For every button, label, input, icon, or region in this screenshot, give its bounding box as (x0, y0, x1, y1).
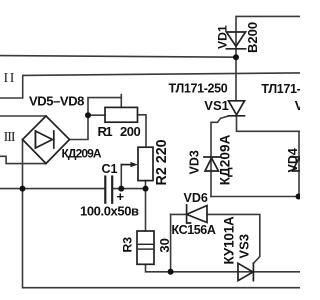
svg-text:ТЛ171-250: ТЛ171-250 (261, 82, 300, 96)
svg-text:C1: C1 (102, 162, 118, 176)
svg-text:30: 30 (157, 238, 172, 252)
svg-text:В200: В200 (245, 22, 260, 53)
svg-text:VS1: VS1 (204, 98, 229, 113)
wire top right to VD1 (236, 16, 300, 100)
wire R2 wiper from C1 (120, 165, 122, 189)
resistor R1 (105, 107, 138, 122)
svg-text:R2 220: R2 220 (154, 139, 170, 185)
diode VD3 (204, 156, 220, 158)
svg-text:200: 200 (120, 124, 140, 139)
wire winding III input (0, 156, 46, 163)
wiper arrow (121, 164, 133, 166)
svg-text:КД209А: КД209А (62, 147, 102, 161)
zener VD6 (187, 205, 191, 223)
svg-text:КУ101А: КУ101А (221, 216, 236, 264)
svg-text:VD4: VD4 (286, 148, 300, 172)
svg-text:VD5–VD8: VD5–VD8 (29, 94, 84, 109)
svg-text:R3: R3 (121, 237, 135, 253)
svg-text:ТЛ171-250: ТЛ171-250 (169, 82, 228, 96)
diode VD4 (cut at edge) (291, 156, 300, 158)
bridge inner diode (34, 131, 36, 148)
wire VD6 to VS3 gate (207, 214, 260, 263)
wire VD4 vertical (298, 131, 300, 196)
diode VD1 (226, 32, 245, 46)
svg-text:VD6: VD6 (184, 191, 208, 205)
wire bridge minus vertical (23, 140, 301, 288)
svg-text:КС156А: КС156А (172, 223, 216, 237)
node C1 plus / wiper (118, 186, 124, 192)
thyristor VS1 (229, 101, 245, 115)
wire C1 right (113, 188, 146, 190)
wire VD6 left vertical (170, 214, 172, 271)
potentiometer R2 (138, 147, 153, 180)
svg-text:VS3: VS3 (236, 234, 251, 259)
svg-text:КД209А: КД209А (217, 134, 232, 185)
node bridge plus / R1 (85, 112, 91, 118)
capacitor C1 (104, 177, 106, 203)
svg-text:R1: R1 (98, 124, 113, 139)
thyristor VS3 (238, 263, 253, 280)
svg-text:VD3: VD3 (187, 150, 201, 174)
resistor R3 (137, 231, 154, 264)
svg-text:+: + (117, 189, 125, 204)
wire R3 bottom (146, 264, 171, 272)
svg-text:II: II (4, 71, 17, 86)
wire gate bus (211, 196, 299, 198)
node gate bus right (296, 194, 302, 200)
svg-text:VS2: VS2 (295, 98, 300, 113)
wire R1 to R2 (138, 115, 147, 147)
svg-text:100.0х50в: 100.0х50в (80, 204, 139, 219)
wire bridge plus to R1 (70, 115, 106, 139)
wire bridge top input (0, 115, 46, 117)
wire VS1 cathode (237, 116, 301, 132)
wire cathode bus bottom (171, 271, 300, 273)
node A junction VD1/VS1 (233, 54, 239, 60)
wire VD6 anode (171, 213, 187, 215)
wire R1 tap (88, 98, 121, 116)
svg-text:VD1: VD1 (215, 25, 229, 49)
node R2/R3/C1 (143, 186, 149, 192)
wire winding I (top) (0, 56, 236, 58)
wire winding II (0, 73, 300, 98)
node bridge minus / C1 (20, 186, 26, 192)
wire C1 left (0, 188, 104, 190)
wire R2 bottom to R3 (145, 181, 147, 231)
wire VS1 gate (211, 116, 229, 197)
node R3/VD6/VS3 (168, 269, 174, 275)
bridge rectifier VD5-VD8 diamond (23, 116, 70, 164)
svg-text:III: III (4, 130, 16, 145)
